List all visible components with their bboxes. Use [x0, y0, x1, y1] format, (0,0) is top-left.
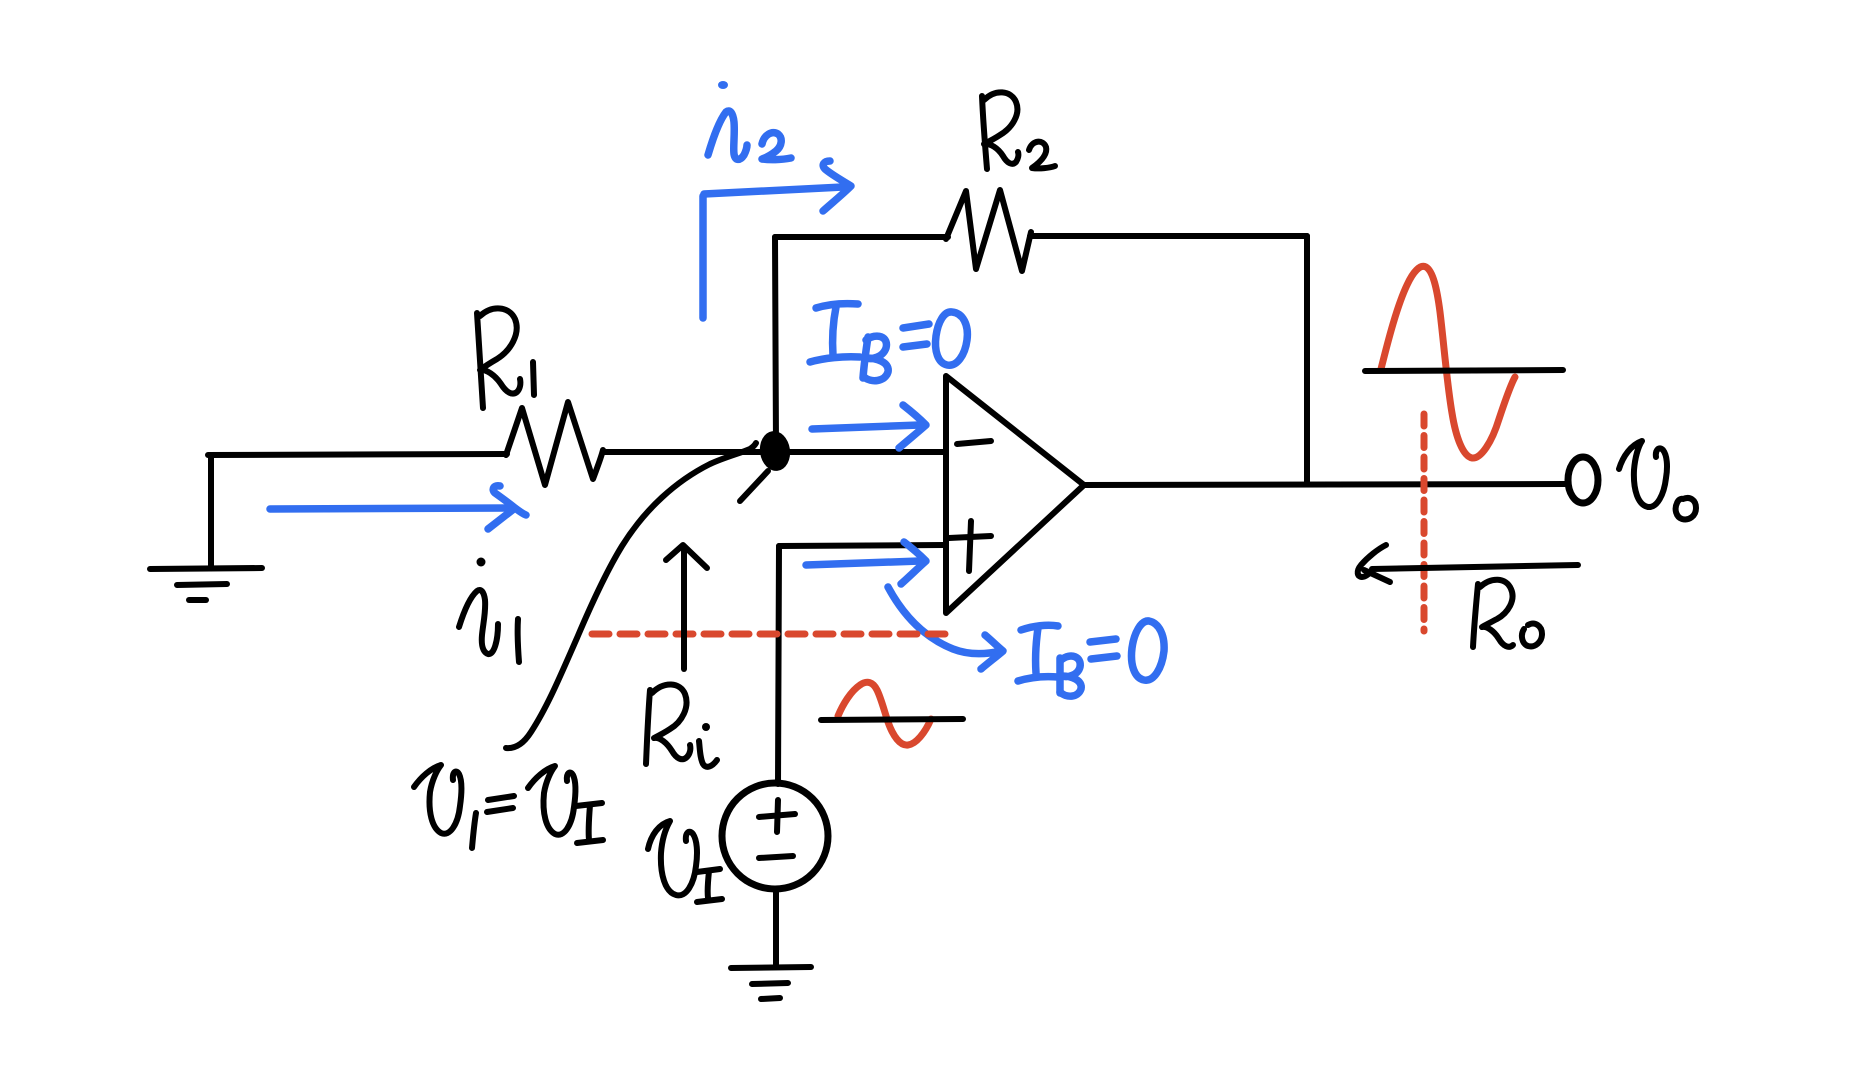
wire node up to feedback — [775, 237, 776, 447]
op-amp plus sign — [949, 521, 991, 571]
feedback top wire right — [1030, 233, 1307, 239]
label IB=0 (bottom, blue) — [1018, 621, 1164, 696]
small red sine (input signal) — [838, 682, 931, 745]
curved arrow to IB=0 (bottom, blue) — [888, 587, 1001, 654]
label v1 = vI — [414, 765, 603, 848]
current arrow into non-inverting input (blue) — [806, 542, 926, 584]
resistor R1 — [506, 402, 603, 485]
label R1 — [477, 308, 534, 408]
Ro arrow (pointing left) — [1358, 545, 1578, 582]
wire from ground to R1 — [208, 454, 507, 455]
big sine baseline — [1365, 370, 1563, 371]
ground (left, at R1 input) — [150, 456, 262, 600]
op-amp minus sign — [957, 441, 991, 444]
label vo — [1619, 441, 1696, 519]
label IB=0 (top, blue) — [810, 304, 967, 381]
non-inverting input wire (vertical to source) — [778, 546, 779, 784]
wire op-amp output — [1084, 484, 1565, 485]
big red sine (output signal) — [1381, 266, 1515, 458]
current label i2 (blue) — [708, 81, 791, 160]
current arrow into inverting input (blue) — [812, 405, 926, 448]
black arrow up (Ri) — [666, 545, 707, 669]
wire source to ground — [773, 889, 779, 967]
feedback right vertical wire — [1304, 236, 1310, 483]
label Ri — [646, 684, 717, 766]
op-amp U1 triangle — [946, 376, 1084, 613]
pointer tick through node — [740, 471, 768, 501]
voltage source VI circle — [722, 783, 828, 889]
red dashed vertical line — [1421, 414, 1428, 631]
red dashed horizontal line — [592, 631, 956, 638]
wire R1 to node — [604, 449, 946, 455]
source plus sign — [759, 800, 795, 832]
label i1 — [459, 558, 519, 663]
node A (inverting input junction) — [757, 429, 792, 473]
resistor R2 — [946, 190, 1031, 271]
non-inverting input wire (horizontal) — [779, 545, 944, 546]
ground (below source) — [731, 967, 811, 999]
feedback top wire left — [775, 234, 948, 240]
label Ro — [1473, 580, 1542, 647]
small sine baseline — [821, 719, 963, 720]
source minus sign — [759, 856, 793, 858]
pointer curve from v1 label to node — [506, 443, 756, 748]
output terminal circle — [1568, 457, 1598, 503]
current arrow i1 (blue) — [270, 486, 526, 529]
label vI (source) — [648, 821, 722, 902]
current arrow i2 (blue L arrow) — [703, 161, 851, 318]
label R2 — [982, 92, 1055, 169]
